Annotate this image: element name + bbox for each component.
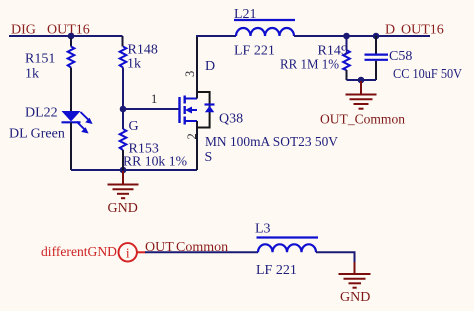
ground symbol OUT_Common (346, 81, 377, 109)
svg-text:2: 2 (185, 133, 199, 139)
svg-text:CC 10uF 50V: CC 10uF 50V (393, 67, 462, 82)
svg-text:1k: 1k (127, 57, 141, 72)
inductor L3 (257, 238, 319, 253)
svg-text:G: G (129, 119, 139, 134)
svg-text:D: D (385, 23, 395, 38)
wire L3 to ground corner (316, 252, 355, 263)
svg-text:R151: R151 (25, 52, 55, 67)
svg-text:MN 100mA SOT23 50V: MN 100mA SOT23 50V (205, 135, 338, 150)
svg-text:1k: 1k (25, 67, 39, 82)
svg-text:GND: GND (340, 290, 370, 305)
wire drain to L21 (196, 35, 236, 37)
pin drain Q38 (196, 37, 198, 99)
wire bottom ground rail (71, 169, 197, 171)
svg-text:R149: R149 (318, 44, 348, 59)
ground symbol GND bottom right (339, 262, 371, 288)
wire port to L3 (145, 251, 258, 253)
wire R149 top lead (346, 36, 348, 50)
resistor R149 (343, 50, 350, 70)
wire gate (123, 108, 179, 110)
port circle i (119, 243, 147, 261)
svg-text:1: 1 (151, 92, 157, 106)
node gate junction (120, 106, 127, 113)
svg-text:C58: C58 (389, 49, 412, 64)
LED DL22 (62, 111, 93, 134)
resistor R153 (120, 129, 127, 150)
pin source Q38 (196, 121, 198, 170)
svg-text:L21: L21 (234, 7, 257, 22)
transistor body diode bracket (197, 92, 210, 128)
svg-text:DL Green: DL Green (9, 127, 65, 142)
wire R149 bottom lead (346, 70, 348, 80)
wire R149 C58 bottom (347, 79, 377, 81)
svg-text:DL22: DL22 (25, 106, 58, 121)
svg-text:differentGND: differentGND (41, 245, 117, 260)
svg-text:OUT_Common: OUT_Common (320, 113, 405, 128)
wire L21 to D_OUT16 (294, 35, 430, 37)
svg-text:RR 10k 1%: RR 10k 1% (123, 155, 187, 170)
svg-text:LF 221: LF 221 (256, 263, 297, 278)
transistor bulk arrow (185, 107, 197, 114)
svg-text:GND: GND (108, 201, 138, 216)
svg-text:i: i (126, 245, 130, 260)
wire LED to bottom rail (70, 123, 72, 171)
svg-text:RR 1M 1%: RR 1M 1% (280, 58, 339, 73)
body diode symbol (205, 105, 215, 113)
inductor L21 (234, 20, 295, 36)
resistor R148 (120, 47, 127, 68)
wire gate node to R153 (122, 109, 124, 129)
capacitor C58 bottom lead (375, 61, 377, 80)
ground symbol GND left (108, 171, 139, 198)
wire R148 to gate node (122, 68, 124, 110)
svg-text:3: 3 (183, 71, 197, 77)
svg-text:R148: R148 (128, 43, 158, 58)
node junction OUT_Common ground (358, 77, 365, 84)
transistor channel segments (183, 96, 185, 125)
wire R153 to bottom rail (122, 150, 124, 170)
capacitor C58 (365, 55, 389, 60)
wire R151 to LED (70, 68, 72, 112)
transistor drain connect (185, 98, 197, 100)
svg-text:S: S (205, 150, 213, 165)
svg-text:L3: L3 (255, 222, 271, 237)
node junction C58 (373, 33, 380, 40)
resistor R151 (68, 47, 75, 68)
transistor Q1 gate bar (178, 97, 180, 123)
node junction bottom rail (120, 167, 127, 174)
node junction R149 (343, 33, 350, 40)
wire top rail DIG_OUT16 (9, 35, 123, 37)
svg-text:Q38: Q38 (219, 112, 243, 127)
wire R148 top lead corner (122, 36, 124, 47)
capacitor C58 top lead (375, 36, 377, 54)
svg-text:LF 221: LF 221 (234, 44, 275, 59)
wire R151 top lead (70, 38, 72, 47)
node junction top rail (68, 33, 75, 40)
transistor source connect (185, 120, 197, 122)
svg-text:D: D (205, 59, 215, 74)
svg-text:OUT16: OUT16 (401, 23, 444, 38)
